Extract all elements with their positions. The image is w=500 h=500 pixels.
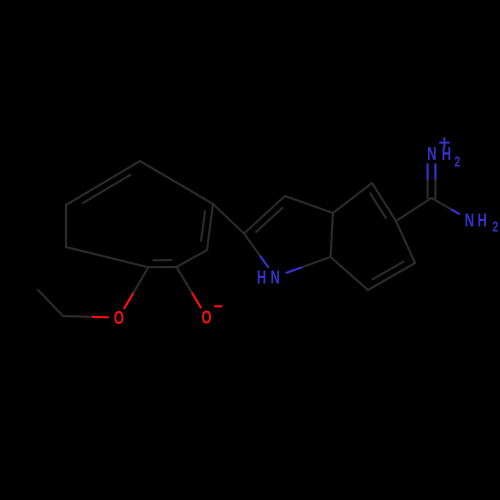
svg-text:N: N — [465, 211, 474, 231]
svg-text:H: H — [257, 268, 266, 288]
svg-text:N: N — [271, 268, 280, 288]
svg-text:2: 2 — [454, 152, 460, 169]
svg-text:H: H — [442, 145, 451, 165]
svg-text:O: O — [201, 309, 211, 329]
svg-text:N: N — [427, 145, 436, 165]
svg-text:H: H — [478, 211, 487, 231]
svg-text:O: O — [114, 309, 124, 329]
svg-text:2: 2 — [492, 218, 498, 235]
